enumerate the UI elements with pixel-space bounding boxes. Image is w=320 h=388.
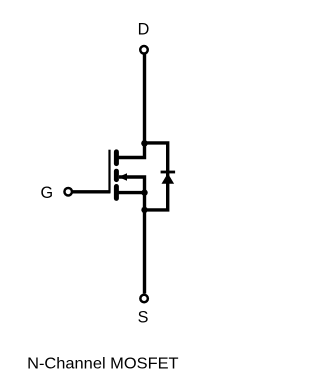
svg-text:G: G bbox=[41, 184, 54, 202]
junction source/diode node bbox=[141, 207, 147, 213]
mosfet channel bar (body) bbox=[114, 171, 119, 179]
wire source stub bbox=[116, 191, 144, 194]
wire diode branch (top tap, down right side, bottom tap) bbox=[145, 143, 168, 210]
body diode anode triangle bbox=[162, 173, 175, 184]
mosfet channel bar (source) bbox=[114, 187, 119, 199]
wire drain (D terminal down, corner left to channel top bar) bbox=[116, 53, 144, 157]
mosfet gate plate bbox=[108, 150, 110, 193]
wire gate bbox=[72, 190, 110, 193]
terminal G bbox=[64, 188, 72, 196]
terminal D bbox=[140, 46, 148, 54]
svg-text:D: D bbox=[138, 21, 150, 39]
svg-text:S: S bbox=[138, 309, 149, 327]
svg-text:N-Channel MOSFET: N-Channel MOSFET bbox=[27, 355, 179, 372]
wire body connection (arrow line right, down to source node, on to S terminal) bbox=[119, 177, 145, 294]
body diode cathode bar bbox=[161, 171, 176, 174]
terminal S bbox=[140, 295, 148, 303]
mosfet channel bar (drain) bbox=[114, 152, 119, 164]
mosfet body arrow bbox=[118, 173, 127, 181]
junction drain/diode node bbox=[141, 140, 148, 147]
junction source/body node bbox=[141, 189, 147, 195]
